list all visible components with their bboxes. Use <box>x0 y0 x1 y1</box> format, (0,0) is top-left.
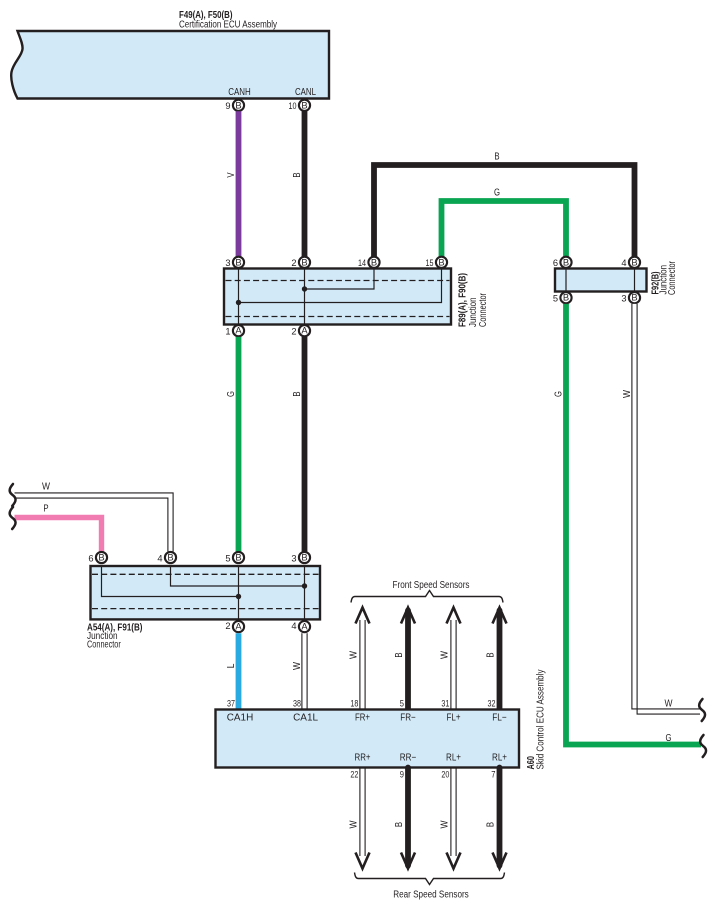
svg-text:Certification ECU Assembly: Certification ECU Assembly <box>179 20 277 31</box>
pin 2 A <box>233 621 244 632</box>
svg-text:Front Speed Sensors: Front Speed Sensors <box>393 580 470 591</box>
internal wire pin14 branch <box>305 269 375 290</box>
wire G green F92 pin5 down to right edge <box>566 304 701 745</box>
svg-text:G: G <box>494 188 500 199</box>
svg-text:B: B <box>394 822 405 828</box>
svg-text:3: 3 <box>291 554 296 564</box>
svg-text:5: 5 <box>553 294 558 304</box>
pin 6 B <box>560 257 571 268</box>
svg-text:B: B <box>486 822 497 828</box>
svg-text:2: 2 <box>291 327 296 337</box>
svg-text:B: B <box>394 652 405 658</box>
svg-text:B: B <box>235 99 241 110</box>
svg-text:A: A <box>301 621 308 632</box>
svg-text:CANH: CANH <box>228 87 251 98</box>
pin 2 B <box>299 257 310 268</box>
ECU A60 Skid Control ECU Assembly box <box>216 710 520 768</box>
junction dot <box>302 583 307 588</box>
svg-text:32: 32 <box>488 699 496 709</box>
svg-text:4: 4 <box>291 621 296 631</box>
junction connector F89(A), F90(B) box <box>224 269 451 325</box>
label A60 Skid Control ECU Assembly <box>526 756 537 770</box>
svg-text:Connector: Connector <box>87 639 121 650</box>
pin 4 A <box>299 621 310 632</box>
ECU F49/F50 Certification ECU Assembly box <box>11 31 329 99</box>
svg-text:L: L <box>226 663 237 668</box>
svg-text:FR+: FR+ <box>355 713 370 724</box>
svg-text:W: W <box>440 820 451 829</box>
internal wire pin15 branch <box>239 269 442 303</box>
pin 15 B <box>436 257 447 268</box>
pin 14 B <box>368 257 379 268</box>
svg-text:A: A <box>235 325 242 336</box>
svg-text:FL+: FL+ <box>447 713 461 724</box>
svg-text:G: G <box>666 733 672 744</box>
svg-text:Connector: Connector <box>478 292 489 327</box>
wire W rear RR+ with arrow <box>359 768 361 857</box>
svg-text:P: P <box>43 504 49 515</box>
pin 10 B <box>299 100 310 111</box>
wire W front FR+ with arrow <box>356 608 370 624</box>
pin 2 A <box>299 325 310 336</box>
svg-text:B: B <box>438 256 444 267</box>
svg-text:RR+: RR+ <box>355 753 371 764</box>
svg-text:FL−: FL− <box>492 713 507 724</box>
svg-text:CA1H: CA1H <box>227 713 254 724</box>
break squiggle W left <box>10 484 16 506</box>
wire G green F89 pin15 to F92 pin6 <box>442 201 567 257</box>
svg-text:Skid Control ECU Assembly: Skid Control ECU Assembly <box>536 669 547 769</box>
wire W white A54 pin4A to A60 pin38 <box>301 633 303 710</box>
pin 3 B <box>299 552 310 563</box>
svg-text:B: B <box>563 256 569 267</box>
svg-text:A: A <box>235 621 242 632</box>
wire B front FL- with arrow <box>493 608 507 624</box>
internal wire pin3 to pin4A <box>304 566 306 619</box>
svg-text:B: B <box>563 292 569 303</box>
svg-text:W: W <box>440 650 451 659</box>
svg-text:3: 3 <box>225 258 230 268</box>
internal wire pin6 to pin5 <box>565 269 567 292</box>
svg-text:6: 6 <box>88 554 93 564</box>
svg-text:2: 2 <box>291 258 296 268</box>
pin 5 B <box>233 552 244 563</box>
svg-text:B: B <box>167 552 173 563</box>
break squiggle P left <box>10 507 16 529</box>
svg-text:2: 2 <box>225 621 230 631</box>
svg-text:W: W <box>622 389 633 398</box>
svg-text:B: B <box>292 172 303 178</box>
svg-text:CANL: CANL <box>295 87 316 98</box>
internal wire pin4 branch <box>171 566 305 586</box>
pin 4 B <box>629 257 640 268</box>
pin 5 B <box>560 292 571 303</box>
svg-text:FR−: FR− <box>400 713 416 724</box>
svg-text:Rear Speed Sensors: Rear Speed Sensors <box>393 890 469 901</box>
wire W front FL+ with arrow <box>447 608 461 624</box>
svg-text:18: 18 <box>350 699 358 709</box>
svg-text:37: 37 <box>227 699 235 709</box>
svg-text:W: W <box>42 482 51 493</box>
svg-text:31: 31 <box>441 699 449 709</box>
junction dot <box>236 300 241 305</box>
wire W white from left edge to A54 pin4 <box>15 496 171 552</box>
svg-text:4: 4 <box>157 554 162 564</box>
wire B black CANL to F89 pin2 <box>302 111 308 256</box>
junction dot <box>302 286 307 291</box>
svg-text:7: 7 <box>491 770 495 780</box>
svg-text:B: B <box>301 99 307 110</box>
svg-text:B: B <box>631 292 637 303</box>
svg-text:6: 6 <box>553 258 558 268</box>
internal wire pin2 to pin2A <box>304 269 306 325</box>
svg-text:B: B <box>371 256 377 267</box>
svg-text:5: 5 <box>225 554 230 564</box>
internal wire pin3 to pin1 <box>238 269 240 325</box>
pin 9 B <box>233 100 244 111</box>
junction connector F92(B) box <box>555 269 647 292</box>
svg-text:1: 1 <box>225 327 230 337</box>
svg-text:RL+: RL+ <box>492 753 507 764</box>
svg-text:CA1L: CA1L <box>293 713 319 724</box>
front speed sensors brace <box>351 591 503 603</box>
wire B front FR- with arrow <box>401 608 415 624</box>
break squiggle W right <box>699 699 705 721</box>
wire V violet CANH to F89 pin3 <box>236 111 242 256</box>
svg-text:B: B <box>98 552 104 563</box>
internal wire pin4 to pin3 <box>634 269 636 292</box>
svg-text:W: W <box>665 699 674 710</box>
svg-text:G: G <box>226 391 237 397</box>
svg-text:4: 4 <box>621 258 626 268</box>
break squiggle G right <box>700 735 706 757</box>
svg-text:22: 22 <box>350 770 358 780</box>
svg-text:9: 9 <box>225 101 230 111</box>
svg-text:3: 3 <box>621 294 626 304</box>
svg-text:Connector: Connector <box>667 260 678 295</box>
svg-text:B: B <box>235 552 241 563</box>
pin 6 B <box>96 552 107 563</box>
wire G green F89 pin1A to A54 pin5 <box>236 337 242 552</box>
wire B rear RL- with arrow <box>497 768 503 866</box>
pin 4 B <box>165 552 176 563</box>
pin 1 A <box>233 325 244 336</box>
internal wire pin5 to pin2A <box>238 566 240 619</box>
junction dot <box>236 594 241 599</box>
svg-text:B: B <box>301 256 307 267</box>
svg-text:V: V <box>226 172 237 178</box>
svg-text:B: B <box>292 391 303 397</box>
wire W rear RL+ with arrow <box>450 768 452 857</box>
svg-text:9: 9 <box>400 770 404 780</box>
svg-text:RL+: RL+ <box>446 753 461 764</box>
wire B rear RR- with arrow <box>405 768 411 866</box>
svg-text:B: B <box>631 256 637 267</box>
svg-text:5: 5 <box>400 699 404 709</box>
label F89(A), F90(B) Junction Connector <box>458 273 469 327</box>
svg-text:15: 15 <box>426 258 434 268</box>
svg-text:B: B <box>486 652 497 658</box>
svg-text:B: B <box>494 152 500 163</box>
rear speed sensors brace <box>355 873 505 885</box>
wire B black F89 pin14 to F92 pin4 <box>374 165 635 257</box>
wire P pink from left edge to A54 pin6 <box>15 518 102 552</box>
svg-text:B: B <box>301 552 307 563</box>
pin 3 B <box>233 257 244 268</box>
wire W white F92 pin3 down to right edge <box>635 304 701 712</box>
wire B black F89 pin2A to A54 pin3 <box>302 337 308 552</box>
svg-text:10: 10 <box>289 101 297 111</box>
svg-text:B: B <box>235 256 241 267</box>
svg-text:14: 14 <box>358 258 366 268</box>
svg-text:W: W <box>349 820 360 829</box>
svg-text:A: A <box>301 325 308 336</box>
junction connector A54(A), F91(B) box <box>91 566 321 619</box>
wire L blue A54 pin2A to A60 pin37 <box>236 633 242 710</box>
internal wire pin6 branch <box>102 566 239 597</box>
svg-text:W: W <box>292 661 303 670</box>
svg-text:RR−: RR− <box>400 753 417 764</box>
label F92(B) Junction Connector <box>650 272 661 295</box>
svg-text:G: G <box>554 391 565 397</box>
pin 3 B <box>629 292 640 303</box>
svg-text:20: 20 <box>441 770 449 780</box>
svg-text:W: W <box>349 650 360 659</box>
svg-text:38: 38 <box>293 699 301 709</box>
